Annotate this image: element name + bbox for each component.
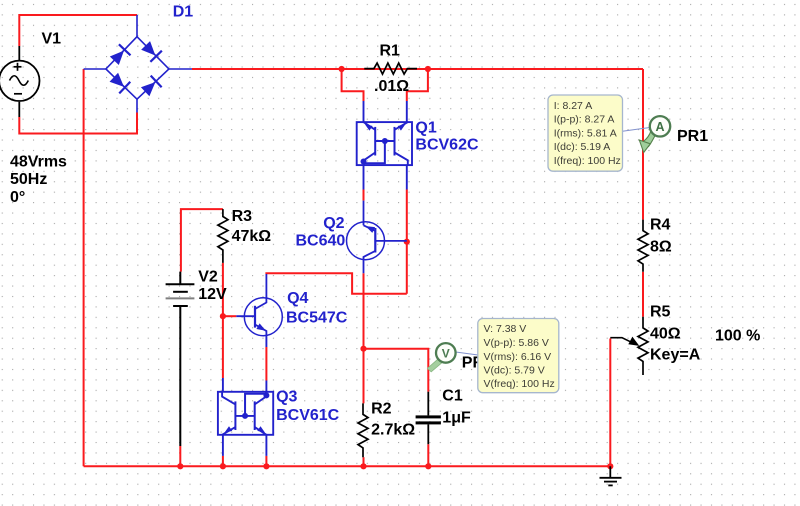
svg-text:1μF: 1μF [442,410,471,427]
svg-text:V(rms): 6.16 V: V(rms): 6.16 V [484,351,552,363]
svg-text:V(p-p): 5.86 V: V(p-p): 5.86 V [484,337,549,349]
svg-text:V1: V1 [42,31,62,48]
svg-text:R5: R5 [650,304,671,321]
svg-text:I(dc): 5.19 A: I(dc): 5.19 A [554,141,611,153]
svg-text:50Hz: 50Hz [10,171,47,188]
svg-text:I(p-p): 8.27 A: I(p-p): 8.27 A [554,114,615,126]
svg-text:PR1: PR1 [677,128,708,145]
svg-text:I(freq): 100 Hz: I(freq): 100 Hz [554,155,621,167]
svg-text:D1: D1 [173,4,194,21]
svg-text:12V: 12V [198,286,227,303]
svg-text:Q2: Q2 [323,215,344,232]
svg-text:Q1: Q1 [415,120,436,137]
svg-text:40Ω: 40Ω [650,326,681,343]
svg-text:0°: 0° [10,189,25,206]
svg-text:8Ω: 8Ω [650,239,672,256]
svg-text:2.7kΩ: 2.7kΩ [371,422,415,439]
svg-text:BCV61C: BCV61C [276,407,340,424]
svg-text:.01Ω: .01Ω [374,78,409,95]
svg-text:BC640: BC640 [296,233,346,250]
svg-text:A: A [655,120,664,134]
svg-text:Q3: Q3 [276,388,297,405]
svg-text:V2: V2 [198,269,218,286]
svg-text:I(rms): 5.81 A: I(rms): 5.81 A [554,127,617,139]
svg-text:R1: R1 [380,42,401,59]
svg-text:V(dc): 5.79 V: V(dc): 5.79 V [484,364,545,376]
svg-text:BCV62C: BCV62C [415,136,479,153]
svg-text:V: 7.38 V: V: 7.38 V [484,323,527,335]
svg-text:48Vrms: 48Vrms [10,153,67,170]
svg-text:R2: R2 [371,401,392,418]
svg-text:47kΩ: 47kΩ [232,228,272,245]
svg-text:R3: R3 [232,208,253,225]
svg-text:100 %: 100 % [715,328,760,345]
svg-text:C1: C1 [442,387,463,404]
svg-text:BC547C: BC547C [286,310,348,327]
svg-text:R4: R4 [650,217,671,234]
svg-text:V(freq): 100 Hz: V(freq): 100 Hz [484,378,555,390]
svg-text:V: V [442,346,450,360]
svg-text:I: 8.27 A: I: 8.27 A [554,100,593,112]
svg-text:Key=A: Key=A [650,347,701,364]
svg-text:Q4: Q4 [287,290,308,307]
